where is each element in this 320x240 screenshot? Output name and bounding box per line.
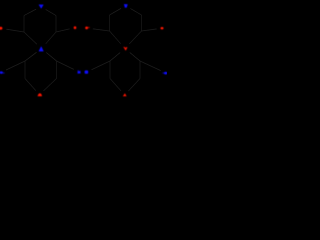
wire bond C3d-O14: [110, 79, 121, 91]
atom N2: [124, 4, 128, 8]
wire bond C5b=O11: [142, 29, 157, 31]
wire bond C6c-N3: [46, 53, 56, 62]
wire bond N2-C2b: [110, 8, 121, 15]
wire bond C6d-N5: [140, 61, 161, 71]
atom O8: [0, 27, 2, 30]
atom N5: [164, 72, 167, 75]
wire bond O12-C5b: [129, 31, 141, 44]
wire bond C5a=O9: [56, 29, 70, 32]
wire bond C2c-N4: [6, 61, 25, 70]
wire bond O12-C2d: [110, 53, 120, 62]
wire bond O14-C5d: [128, 79, 140, 92]
atom O14: [123, 93, 127, 96]
wire bond N1-C2a: [24, 9, 36, 15]
atom N1: [39, 5, 44, 9]
wire bond C6a-N1: [46, 10, 56, 16]
wire bond C3a-N3: [24, 32, 37, 44]
wire bond C6d-O12: [130, 53, 140, 62]
atom O9: [74, 26, 77, 29]
wire bond C5c-C6c: [56, 61, 58, 79]
wire bond C5a-C6a: [55, 16, 57, 33]
wire bond C3b=O10: [93, 29, 110, 31]
wire bond C5b-C6b: [141, 15, 143, 31]
wire bond C3a=O8: [6, 29, 24, 32]
wire bond N3-C5a: [46, 32, 56, 44]
atom N3: [39, 46, 44, 51]
wire bond C2d-C3d: [109, 61, 111, 79]
atom O10: [85, 27, 88, 30]
wire bond C2d=N7: [92, 61, 111, 70]
wire bond O13-C5c: [44, 79, 57, 91]
atom O12: [123, 47, 127, 51]
wire bond N3-C2c: [25, 52, 37, 61]
atom N4: [0, 71, 3, 74]
wire bond C6c=N6: [57, 61, 74, 69]
wire bond C5d-C6d: [139, 61, 141, 79]
wire bond C2c-C3c: [24, 61, 26, 79]
wire bond C3c-O13: [25, 79, 36, 91]
atom O11: [161, 27, 164, 29]
atom O13: [38, 93, 42, 96]
wire bond C2a-C3a: [23, 16, 25, 33]
wire bond C2b-C3b: [109, 15, 111, 31]
atom N7: [85, 70, 89, 73]
wire bond C6b-N2: [130, 9, 141, 16]
wire bond C3b-O12: [110, 31, 121, 44]
atom N6: [78, 70, 81, 74]
